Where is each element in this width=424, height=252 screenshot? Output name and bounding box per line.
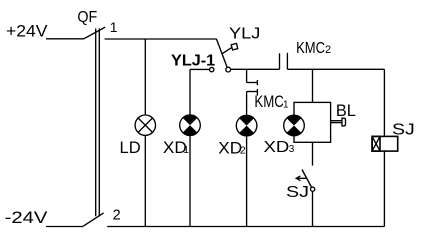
svg-text:SJ: SJ [392, 121, 415, 138]
svg-text:YLJ: YLJ [229, 26, 260, 43]
svg-text:1: 1 [283, 99, 289, 110]
svg-text:1: 1 [110, 19, 118, 35]
wire SJ coil to bottom rail [383, 151, 385, 226]
wire KMC1 to XD2 [246, 92, 248, 116]
wire XD2 branch lower [246, 136, 248, 227]
wire rail to BL box [312, 69, 314, 102]
wire SJ contact to bottom rail [312, 191, 314, 226]
lamp LD [135, 115, 155, 135]
time contact SJ lower terminal [311, 187, 315, 191]
lamp XD3 [284, 115, 305, 136]
contact KMC1 [247, 82, 258, 84]
wire bottom rail node2 [107, 226, 384, 228]
lamp XD1 [180, 115, 201, 136]
relay coil SJ body [372, 136, 398, 151]
svg-text:XD: XD [218, 138, 242, 157]
svg-text:2: 2 [240, 144, 246, 156]
svg-text:+24V: +24V [6, 22, 48, 41]
svg-text:YLJ-1: YLJ-1 [171, 52, 215, 69]
horn BL mouthpiece [342, 118, 346, 126]
svg-text:KMC: KMC [254, 93, 284, 111]
wire XD1-top to YLJ-1 [190, 68, 209, 70]
time contact SJ delay arrow [296, 177, 306, 179]
pressure relay YLJ actuator box [231, 43, 238, 50]
wire XD1 branch lower [189, 136, 191, 227]
time contact SJ blade [302, 170, 311, 188]
contact YLJ-1 left terminal [210, 67, 214, 71]
svg-text:BL: BL [336, 102, 356, 120]
svg-text:2: 2 [113, 207, 121, 223]
breaker QF linkage bar [95, 29, 97, 217]
contact YLJ-1 right terminal [226, 67, 231, 72]
wire SJ coil branch upper [383, 69, 385, 136]
wire XD1 branch upper [189, 69, 191, 115]
contact KMC2 [279, 53, 281, 69]
wire LD branch lower [144, 135, 146, 226]
breaker QF bottom blade [83, 213, 104, 226]
svg-text:KMC: KMC [296, 40, 325, 57]
relay coil SJ delay section [372, 136, 380, 151]
svg-text:XD: XD [264, 139, 290, 156]
pressure relay contact YLJ blade [216, 39, 227, 69]
horn BL mouth lead [331, 120, 342, 122]
wire XD2 branch top [246, 69, 248, 82]
svg-text:1: 1 [183, 145, 189, 156]
svg-text:SJ: SJ [286, 184, 309, 201]
pressure relay YLJ actuator link [222, 47, 231, 53]
wire top rail node1 [105, 38, 216, 40]
horn BL body box [294, 102, 331, 142]
wire YLJ-1 to KMC2 [231, 68, 280, 70]
wire -24V lead [46, 226, 83, 228]
lamp XD2 [236, 115, 257, 136]
svg-text:QF: QF [77, 9, 97, 26]
breaker QF top blade [84, 27, 106, 39]
wire KMC2 to SJ branch [287, 68, 384, 70]
wire BL box to SJ contact [312, 142, 314, 165]
svg-text:-24V: -24V [5, 208, 49, 227]
wire +24V lead [46, 38, 84, 40]
svg-text:2: 2 [325, 44, 331, 56]
svg-text:3: 3 [289, 144, 295, 155]
wire LD branch upper [144, 39, 146, 115]
svg-text:LD: LD [120, 138, 141, 157]
